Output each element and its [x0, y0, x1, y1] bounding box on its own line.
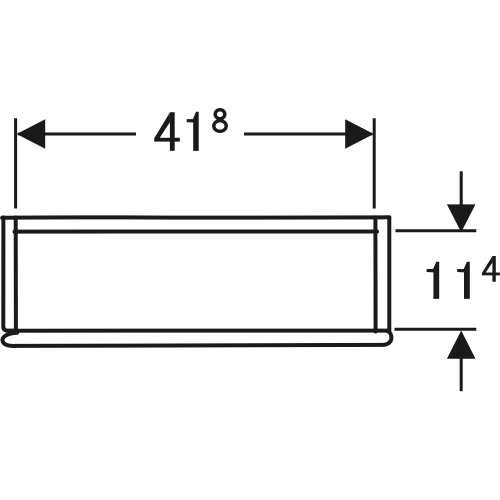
dimension text first digit 1 of 11 — [427, 262, 440, 299]
extension line top (11.4) — [396, 229, 477, 232]
bottom lip outline — [2, 331, 391, 346]
dimension text superscript 4 of 11 — [492, 256, 495, 282]
dimension text digit 1 of 41 — [187, 112, 199, 151]
extension line bottom (11.4) — [395, 328, 477, 331]
arrowhead right (41.8) — [345, 119, 374, 148]
arrowhead down (11.4) — [447, 204, 476, 232]
shelf top edge — [2, 215, 389, 220]
shelf inner rail line — [15, 229, 378, 233]
left side panel inner edge — [14, 217, 18, 331]
dimension text second digit 1 of 11 — [457, 262, 470, 299]
shelf bottom edge — [9, 329, 390, 333]
extension line left (41.8) — [14, 118, 17, 208]
right side panel inner edge — [373, 217, 377, 331]
dimension text digit 4 of 41 — [170, 112, 175, 151]
dimension line 41.8 left segment — [18, 133, 136, 136]
dimension line 41.8 right segment — [244, 133, 372, 136]
arrowhead up (11.4) — [447, 331, 476, 359]
arrowhead left (41.8) — [17, 119, 46, 148]
dimension line 11.4 upper segment — [460, 171, 463, 205]
extension line right (41.8) — [373, 118, 376, 208]
dimension text superscript 8 of 41 — [214, 110, 226, 132]
dimension line 11.4 lower segment — [460, 358, 463, 391]
left side panel outer edge — [3, 217, 14, 330]
right side panel outer edge — [387, 217, 391, 330]
